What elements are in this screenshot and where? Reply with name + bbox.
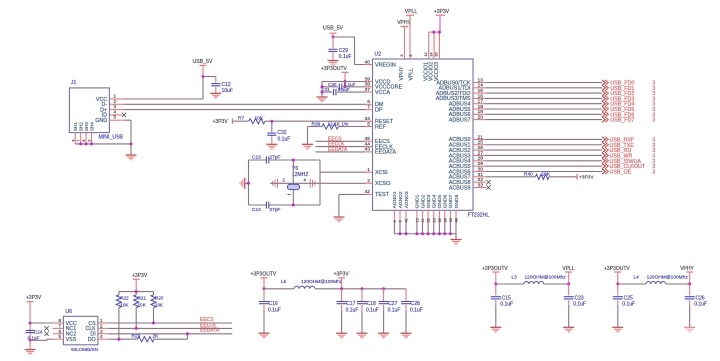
wire VCCIO2 up to +3P3V rail bbox=[433, 32, 435, 52]
svg-text:36: 36 bbox=[443, 218, 447, 222]
wire to ground under U2 bbox=[455, 234, 457, 240]
ground below C18 bbox=[357, 333, 368, 338]
wire pullup rail bbox=[119, 291, 154, 293]
junction L4 input bbox=[616, 283, 619, 286]
svg-text:0.1uF: 0.1uF bbox=[346, 308, 359, 314]
svg-text:43: 43 bbox=[365, 147, 371, 153]
svg-text:GND3: GND3 bbox=[426, 194, 432, 208]
svg-text:39: 39 bbox=[365, 76, 371, 82]
ground below C15 bbox=[490, 327, 501, 332]
wire ACBUS5 to USB_CLKOUT bbox=[485, 165, 602, 167]
svg-text:10: 10 bbox=[416, 218, 420, 222]
svg-text:+3P3OUTV: +3P3OUTV bbox=[321, 66, 347, 72]
off-page connector USB_FD2 bbox=[602, 91, 605, 96]
wire EECLK to U2 bbox=[316, 146, 366, 148]
wire U6 DI to EEDATA label bbox=[109, 333, 233, 335]
off-page connector USB_SIWUA bbox=[602, 158, 605, 163]
svg-text:VPLL: VPLL bbox=[408, 68, 414, 81]
svg-text:9: 9 bbox=[399, 220, 403, 222]
U2 pin 32 ACBUS8 bbox=[473, 181, 486, 183]
ground below C17 bbox=[336, 333, 347, 338]
wire J1 VCC to USB_5V node bbox=[124, 98, 203, 100]
svg-text:27: 27 bbox=[478, 150, 484, 156]
J1 pin 4 (ID) stub, no-connect bbox=[109, 114, 122, 116]
wire R22 to DO row bbox=[118, 308, 120, 340]
svg-text:C14: C14 bbox=[252, 207, 261, 213]
IC U2 FT232HL bbox=[373, 59, 474, 210]
svg-text:0.1uF: 0.1uF bbox=[500, 302, 513, 308]
U2 pin 18 ADBUS5 bbox=[473, 108, 485, 110]
svg-text:R20: R20 bbox=[155, 296, 164, 301]
svg-text:1: 1 bbox=[114, 94, 117, 99]
svg-text:L5: L5 bbox=[281, 279, 287, 285]
junction dots on +3P3OUTV drop bbox=[344, 80, 347, 83]
U2 pin 15 ADBUS2/TDO bbox=[473, 92, 485, 94]
wire U2 TEST to ground bbox=[339, 193, 366, 195]
wire L5 output rail +3P3V bbox=[315, 288, 406, 290]
wire L3 output to VPLL bbox=[544, 283, 569, 285]
off-page connector USB_FD0 bbox=[602, 80, 605, 85]
svg-text:C24: C24 bbox=[34, 330, 43, 335]
junction dots crystal verticals bbox=[292, 159, 295, 162]
U2 pin 37 VCCA bbox=[365, 91, 373, 93]
capacitor C23 0.1uF bbox=[568, 284, 570, 296]
svg-text:GND5: GND5 bbox=[437, 194, 443, 208]
junction dots +3P3V rail bbox=[432, 31, 435, 34]
svg-text:0.1uF: 0.1uF bbox=[622, 302, 635, 308]
ground below C12 bbox=[210, 93, 221, 98]
U2 bottom pin 23 GND4 bbox=[433, 210, 435, 222]
svg-text:23: 23 bbox=[432, 218, 436, 222]
ground below C32 bbox=[266, 144, 277, 149]
svg-text:5: 5 bbox=[58, 334, 61, 339]
U2 top pin VPHY bbox=[404, 52, 406, 59]
svg-text:VPHY: VPHY bbox=[680, 266, 694, 272]
svg-text:ADBUS7: ADBUS7 bbox=[449, 117, 471, 123]
svg-text:C27: C27 bbox=[388, 301, 397, 307]
ground below TEST bbox=[333, 217, 344, 222]
svg-text:44: 44 bbox=[365, 141, 371, 147]
svg-text:C28: C28 bbox=[411, 301, 420, 307]
wire VCCA row bbox=[322, 91, 332, 93]
svg-text:VPLL: VPLL bbox=[405, 9, 417, 15]
U2 pin 30 ACBUS6 bbox=[473, 171, 485, 173]
U2 pin 28 ACBUS4 bbox=[473, 160, 485, 162]
svg-text:+3P3V: +3P3V bbox=[579, 175, 594, 181]
ground below C28 bbox=[401, 333, 412, 338]
svg-text:24: 24 bbox=[429, 53, 433, 57]
svg-text:MINI_USB: MINI_USB bbox=[99, 134, 124, 140]
U2 bottom pin 45 GND7 bbox=[449, 210, 451, 222]
svg-text:AGND2: AGND2 bbox=[398, 191, 404, 208]
svg-text:GND1: GND1 bbox=[415, 194, 421, 208]
svg-text:0.1uF: 0.1uF bbox=[268, 308, 281, 314]
off-page connector USB_FD7 bbox=[602, 117, 605, 122]
wire R21 to CLK row bbox=[135, 308, 137, 329]
wire ACBUS3 to USB_WR bbox=[485, 154, 602, 156]
ground left of crystal bbox=[240, 178, 245, 189]
off-page connector USB_RXF bbox=[602, 137, 605, 142]
ground below C30/C31 bbox=[317, 97, 328, 102]
svg-text:10K: 10K bbox=[120, 303, 129, 308]
junction dots ground bus bbox=[399, 232, 402, 235]
ground below C23 bbox=[563, 327, 574, 332]
svg-text:2: 2 bbox=[114, 99, 117, 104]
svg-text:R22: R22 bbox=[120, 296, 129, 301]
wire ACBUS0 to USB_RXF bbox=[485, 138, 602, 140]
svg-text:45: 45 bbox=[449, 218, 453, 222]
svg-text:2: 2 bbox=[100, 323, 103, 328]
svg-text:0.1uF: 0.1uF bbox=[366, 308, 379, 314]
svg-text:GND6: GND6 bbox=[443, 194, 449, 208]
svg-text:8: 8 bbox=[58, 318, 61, 323]
svg-text:C25: C25 bbox=[624, 295, 633, 301]
svg-text:J1: J1 bbox=[71, 80, 77, 86]
wire ADBUS7 to USB_FD7 bbox=[485, 119, 602, 121]
resistor R22 10K bbox=[118, 292, 120, 295]
U6 pin 8 VCC bbox=[53, 322, 64, 324]
wire R39 left to ground bbox=[308, 126, 323, 128]
svg-text:+3P3V: +3P3V bbox=[334, 272, 350, 278]
wire ADBUS3/TMS to USB_FD3 bbox=[485, 97, 602, 99]
U2 pin 43 EEDATA bbox=[365, 151, 373, 153]
svg-text:7: 7 bbox=[77, 140, 81, 142]
svg-text:C15: C15 bbox=[502, 295, 511, 301]
power VPHY bbox=[404, 26, 406, 52]
J1 pin 5 (GND) stub bbox=[109, 119, 124, 121]
wire R7 to U2 RESET bbox=[265, 120, 366, 122]
J1 pin 2 (D-) stub bbox=[109, 103, 124, 105]
wire down to C29 bbox=[332, 37, 334, 48]
wire ACBUS2 to USB_RD bbox=[485, 149, 602, 151]
off-page connector USB_OE bbox=[602, 169, 605, 174]
U2 pin 38 VCCCORE bbox=[365, 86, 373, 88]
svg-text:30: 30 bbox=[478, 166, 484, 172]
svg-text:USB_OE: USB_OE bbox=[610, 170, 632, 176]
wire R20 to CS row bbox=[153, 308, 155, 323]
svg-text:C32: C32 bbox=[278, 130, 287, 136]
svg-text:TEST: TEST bbox=[375, 192, 390, 198]
junction L5 input bbox=[263, 287, 266, 290]
svg-text:+3P3OUTV: +3P3OUTV bbox=[604, 266, 630, 272]
svg-text:0.1uF: 0.1uF bbox=[339, 54, 352, 60]
svg-text:4: 4 bbox=[393, 220, 397, 222]
svg-text:3: 3 bbox=[652, 170, 655, 176]
svg-text:10K: 10K bbox=[155, 303, 164, 308]
svg-text:GND2: GND2 bbox=[420, 194, 426, 208]
svg-text:27pF: 27pF bbox=[270, 207, 281, 213]
svg-text:12MHZ: 12MHZ bbox=[292, 172, 308, 178]
junction USB_5V/C29 bbox=[332, 36, 335, 39]
off-page connector USB_CLKOUT bbox=[602, 164, 605, 169]
wire ACBUS1 to USB_TXE bbox=[485, 144, 602, 146]
J1 shield pins SH1-SH4 stubs bbox=[74, 133, 76, 144]
svg-text:VPHY: VPHY bbox=[397, 20, 411, 26]
svg-text:8: 8 bbox=[82, 140, 86, 142]
svg-text:10K: 10K bbox=[138, 303, 147, 308]
svg-text:18: 18 bbox=[478, 104, 484, 110]
power +3P3V at R40 bbox=[576, 174, 578, 180]
wire USB_5V node down to VCC wire bbox=[202, 77, 204, 100]
off-page connector USB_FD3 bbox=[602, 96, 605, 101]
svg-text:R7: R7 bbox=[238, 115, 244, 121]
wire U6 VSS to ground rail bbox=[47, 338, 53, 340]
svg-text:R40: R40 bbox=[524, 171, 533, 177]
svg-text:3: 3 bbox=[100, 329, 103, 334]
wire left vertical to ground bbox=[321, 82, 323, 98]
ground below C26 bbox=[684, 327, 695, 332]
wire R23 to DI junction bbox=[154, 338, 188, 340]
svg-text:C13: C13 bbox=[252, 154, 261, 160]
off-page connector USB_FD6 bbox=[602, 112, 605, 117]
svg-text:8: 8 bbox=[409, 55, 413, 57]
U6 pin 5 VSS bbox=[53, 338, 64, 340]
svg-text:1: 1 bbox=[367, 167, 370, 173]
svg-text:5: 5 bbox=[367, 121, 370, 127]
U2 pin 42 TEST bbox=[365, 193, 373, 195]
no-connect ACBUS8 bbox=[486, 180, 490, 184]
svg-text:L4: L4 bbox=[634, 274, 640, 280]
svg-text:C17: C17 bbox=[346, 301, 355, 307]
wire XCSO through crystal to U2 pin 2 bbox=[270, 182, 366, 184]
power +3P3V above U2 bbox=[439, 15, 441, 32]
U6 pin 2 CLK bbox=[98, 327, 109, 329]
wire XCSI branch to U2 pin 1 bbox=[320, 171, 366, 173]
svg-text:R21: R21 bbox=[138, 296, 147, 301]
junction C24/VSS bbox=[29, 339, 32, 342]
wire D- J1 to U2 DM bbox=[124, 103, 365, 105]
svg-text:2K: 2K bbox=[153, 334, 160, 340]
wire ADBUS1/TDI to USB_FD1 bbox=[485, 87, 602, 89]
wire ADBUS5 to USB_FD5 bbox=[485, 108, 602, 110]
svg-text:AGND1: AGND1 bbox=[392, 191, 398, 208]
junction L3 output bbox=[567, 283, 570, 286]
ground below J1 bbox=[126, 155, 137, 160]
svg-text:AGND3: AGND3 bbox=[404, 191, 410, 208]
U2 bottom pin 48 GND8 bbox=[455, 210, 457, 222]
svg-text:34: 34 bbox=[365, 116, 371, 122]
svg-text:45: 45 bbox=[365, 136, 371, 142]
wire crystal loop right vertical bbox=[319, 160, 321, 205]
svg-text:USB_5V: USB_5V bbox=[193, 59, 213, 65]
svg-text:C23: C23 bbox=[575, 295, 584, 301]
off-page connector USB_FD4 bbox=[602, 101, 605, 106]
wire VCCCORE row bbox=[322, 86, 338, 88]
U2 bottom pin 36 GND6 bbox=[444, 210, 446, 222]
svg-text:+3P3V: +3P3V bbox=[26, 295, 42, 301]
U2 pin 25 ACBUS1 bbox=[473, 144, 485, 146]
U2 pin 26 ACBUS2 bbox=[473, 149, 485, 151]
svg-text:14: 14 bbox=[478, 83, 484, 89]
svg-text:3: 3 bbox=[652, 118, 655, 124]
wire VCCIO1 up to +3P3V rail bbox=[428, 32, 430, 52]
svg-text:C18: C18 bbox=[367, 301, 376, 307]
svg-text:L3: L3 bbox=[512, 274, 518, 280]
svg-text:VREGIN: VREGIN bbox=[375, 62, 396, 68]
svg-text:0.1uF: 0.1uF bbox=[278, 136, 291, 142]
junction +3P3V/VCC bbox=[29, 322, 32, 325]
U2 pin 34 RESET bbox=[365, 120, 373, 122]
junction L4 output bbox=[688, 283, 691, 286]
svg-text:+3P3V: +3P3V bbox=[213, 119, 229, 125]
wire crystal loop bottom (XCSO side) bbox=[249, 204, 267, 206]
svg-text:93LC56B/SN: 93LC56B/SN bbox=[71, 347, 98, 352]
wire U6 CLK to EECLK label bbox=[109, 327, 233, 329]
U6 pin 6 NC2 bbox=[53, 333, 64, 335]
svg-text:XCSO: XCSO bbox=[375, 181, 390, 187]
wire ADBUS6 to USB_FD6 bbox=[485, 113, 602, 115]
junction node USB_5V bbox=[202, 75, 205, 78]
J1 pin 1 (VCC) stub bbox=[109, 98, 124, 100]
wire EEDATA to U2 bbox=[316, 151, 366, 153]
svg-text:GND7: GND7 bbox=[448, 194, 454, 208]
svg-text:120OHM@100Mhz: 120OHM@100Mhz bbox=[301, 279, 343, 285]
svg-text:0.1uF: 0.1uF bbox=[410, 308, 423, 314]
U6 pin 7 NC1 bbox=[53, 327, 64, 329]
capacitor C30 0.1uF bbox=[338, 84, 340, 91]
wire VCCD row bbox=[322, 81, 366, 83]
svg-text:USB_5V: USB_5V bbox=[323, 26, 343, 32]
capacitor C15 0.1uF bbox=[495, 284, 497, 296]
svg-text:FT232HL: FT232HL bbox=[468, 213, 490, 219]
svg-text:C29: C29 bbox=[339, 48, 348, 54]
U2 pin 5 REF bbox=[365, 126, 373, 128]
svg-text:VPHY: VPHY bbox=[399, 66, 405, 80]
resistor R20 10K bbox=[153, 292, 155, 295]
svg-text:SH2: SH2 bbox=[79, 122, 84, 131]
U2 pin 39 VCCD bbox=[365, 81, 373, 83]
wire U6 DO row bbox=[109, 338, 138, 340]
no-connect U6 NC2 bbox=[44, 332, 48, 336]
U6 pin 4 DO bbox=[98, 338, 109, 340]
off-page connector USB_RD bbox=[602, 148, 605, 153]
junction R23/EEDATA bbox=[186, 332, 189, 335]
capacitor C24 0.1uF bbox=[26, 329, 35, 331]
svg-text:7: 7 bbox=[367, 104, 370, 110]
svg-text:10uF: 10uF bbox=[222, 88, 233, 94]
svg-text:U2: U2 bbox=[375, 52, 382, 58]
wire ADBUS2/TDO to USB_FD2 bbox=[485, 92, 602, 94]
svg-text:+3P3OUTV: +3P3OUTV bbox=[251, 272, 277, 278]
U2 pin 29 ACBUS5 bbox=[473, 165, 485, 167]
svg-text:37: 37 bbox=[365, 87, 371, 93]
svg-text:+3P3V: +3P3V bbox=[132, 273, 148, 279]
U2 pin 44 EECLK bbox=[365, 146, 373, 148]
no-connect U6 NC1 bbox=[44, 326, 48, 330]
svg-text:120OHM@100Mhz: 120OHM@100Mhz bbox=[525, 274, 567, 280]
J1 pin 3 (D+) stub bbox=[109, 109, 124, 111]
U2 pin 45 EECS bbox=[365, 140, 373, 142]
capacitor C28 0.1uF bbox=[405, 289, 407, 302]
svg-text:0.1uF: 0.1uF bbox=[344, 82, 356, 87]
svg-text:SH4: SH4 bbox=[89, 122, 94, 131]
svg-text:11: 11 bbox=[421, 219, 425, 223]
svg-text:35: 35 bbox=[435, 53, 439, 57]
svg-text:12: 12 bbox=[424, 53, 428, 57]
U2 pin 7 DP bbox=[365, 109, 373, 111]
wire U6 CS to EECS label bbox=[109, 322, 233, 324]
wire crystal loop top (XCSI side) bbox=[249, 159, 267, 161]
wire ADBUS4 to USB_FD4 bbox=[485, 103, 602, 105]
svg-text:13: 13 bbox=[478, 77, 484, 83]
svg-text:6: 6 bbox=[367, 99, 370, 105]
svg-text:0.1uF: 0.1uF bbox=[694, 302, 707, 308]
svg-text:C16: C16 bbox=[269, 301, 278, 307]
power VPLL bbox=[409, 15, 411, 52]
off-page connector USB_FD5 bbox=[602, 106, 605, 111]
svg-text:21: 21 bbox=[478, 134, 484, 140]
off-page connector USB_TXE bbox=[602, 142, 605, 147]
U6 pin 1 CS bbox=[98, 322, 109, 324]
svg-text:48: 48 bbox=[455, 218, 459, 222]
svg-text:EEDATA: EEDATA bbox=[328, 147, 348, 153]
U2 bottom pin 9 AGND2 bbox=[399, 210, 401, 222]
svg-text:31: 31 bbox=[478, 172, 484, 178]
capacitor C31 0.1uF bbox=[333, 89, 335, 96]
U2 pin 27 ACBUS3 bbox=[473, 154, 485, 156]
wire shield bus to ground bbox=[75, 143, 131, 145]
wire L4 input bbox=[618, 283, 646, 285]
svg-text:16: 16 bbox=[478, 93, 484, 99]
wire L5 input bbox=[264, 288, 294, 290]
resistor R21 10K bbox=[135, 292, 137, 295]
wire ADBUS0/TCK to USB_FD0 bbox=[485, 82, 602, 84]
capacitor C16 0.1uF bbox=[263, 289, 265, 302]
svg-text:XCSI: XCSI bbox=[375, 170, 388, 176]
wire down to C32 bbox=[271, 121, 273, 132]
wire L4 output to VPHY bbox=[666, 283, 690, 285]
svg-text:4: 4 bbox=[114, 109, 117, 114]
U2 pin 20 ADBUS7 bbox=[473, 119, 485, 121]
svg-text:+3P3V: +3P3V bbox=[434, 9, 450, 15]
capacitor C27 0.1uF bbox=[383, 289, 385, 302]
capacitor C32 0.1uF bbox=[267, 132, 276, 134]
svg-text:VSS: VSS bbox=[66, 337, 77, 343]
U2 bottom pin 10 GND1 bbox=[416, 210, 418, 222]
wire +3P3V to R7 bbox=[232, 120, 248, 122]
ground below C25 bbox=[612, 327, 623, 332]
U2 pin 21 ACBUS0 bbox=[473, 138, 485, 140]
U2 pin 13 ADBUS0/TCK bbox=[473, 82, 485, 84]
no-connect ACBUS9 bbox=[486, 185, 490, 189]
off-page connector USB_WR bbox=[602, 153, 605, 158]
svg-text:20: 20 bbox=[478, 115, 484, 121]
U2 pin 16 ADBUS3/TMS bbox=[473, 97, 485, 99]
wire USB_5V to VREGIN bbox=[333, 36, 355, 38]
U2 top pin VPLL bbox=[409, 52, 411, 59]
ground below C16 bbox=[259, 333, 270, 338]
wire ACBUS6 to USB_OE bbox=[485, 171, 602, 173]
svg-text:15: 15 bbox=[478, 88, 484, 94]
wire +3P3V joining rail bbox=[429, 31, 440, 33]
junction +3P3V rail bbox=[135, 290, 138, 293]
junction crystal loop left/ground bbox=[247, 182, 250, 185]
svg-text:38: 38 bbox=[365, 82, 371, 88]
svg-text:SH3: SH3 bbox=[84, 122, 89, 131]
U2 bottom pin 11 GND2 bbox=[422, 210, 424, 222]
IC U6 93LC56B/SN bbox=[63, 316, 98, 345]
U2 pin 40 VREGIN bbox=[365, 64, 373, 66]
capacitor C26 0.1uF bbox=[689, 284, 691, 296]
wire ACBUS4 to USB_SIWUA bbox=[485, 160, 602, 162]
off-page connector USB_FD1 bbox=[602, 85, 605, 90]
wire J1 GND pin to ground bbox=[124, 119, 131, 121]
ground under U2 bbox=[451, 240, 462, 245]
U2 bottom pin 35 GND5 bbox=[438, 210, 440, 222]
U2 pin 2 XCSO bbox=[365, 182, 373, 184]
svg-text:VPLL: VPLL bbox=[562, 266, 574, 272]
U2 pin 31 ACBUS7 bbox=[473, 176, 485, 178]
